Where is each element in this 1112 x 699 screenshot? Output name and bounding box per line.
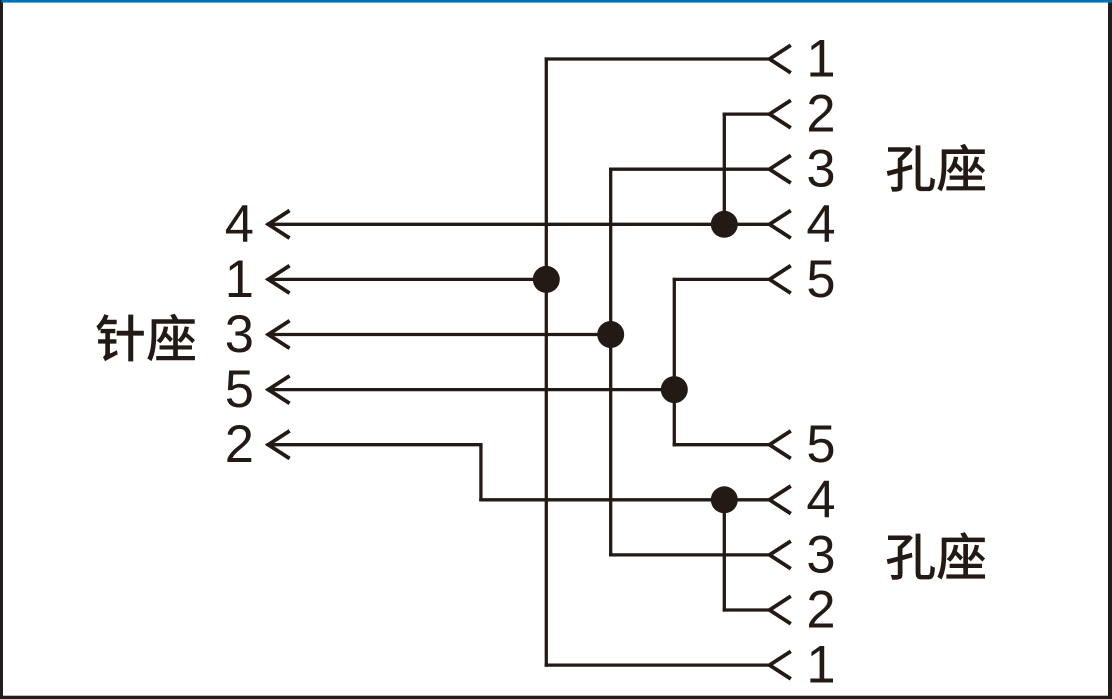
svg-text:4: 4 (806, 195, 835, 254)
wire: pin4 to hole-socket-4 top horizontal (268, 223, 769, 226)
svg-text:3: 3 (806, 140, 835, 199)
wire: hole-socket-1 top horizontal (546, 57, 769, 60)
svg-text:1: 1 (806, 30, 835, 89)
wire: hole-socket-5 bottom horizontal (674, 443, 769, 446)
wire: hole-socket-2 bottom horizontal (724, 608, 769, 611)
svg-text:2: 2 (806, 581, 835, 640)
svg-text:5: 5 (225, 360, 254, 419)
hole-socket(bottom) contact arrow pin 4 (770, 486, 791, 514)
wire: pin2 jog vertical x=481 (479, 445, 482, 500)
wire: hole-socket-4 bottom horizontal (481, 498, 770, 501)
wire: hole-socket-2 top horizontal (724, 112, 769, 115)
hole-socket(bottom) contact arrow pin 1 (770, 651, 791, 679)
wire: net3 vertical bus x=611 (hole3 top to hole3 bottom) (609, 169, 612, 555)
pin-socket contact arrow pin 2 (268, 431, 289, 459)
hole-socket(top) contact arrow pin 5 (770, 266, 791, 294)
hole-socket(bottom) contact arrow pin 3 (770, 541, 791, 569)
pin-socket contact arrow pin 1 (268, 266, 289, 294)
pin-socket contact arrow pin 5 (268, 376, 289, 404)
svg-text:1: 1 (806, 636, 835, 695)
svg-text:4: 4 (225, 195, 254, 254)
wire: hole-socket-5 top horizontal (674, 278, 769, 281)
hole-socket(top) contact arrow pin 3 (770, 155, 791, 183)
border frame left (0, 0, 3, 699)
top blue bar (2, 0, 1112, 3)
hole-socket(top) contact arrow pin 1 (770, 45, 791, 73)
svg-text:3: 3 (806, 525, 835, 584)
connector label 孔座 top (hole socket), char 座 (937, 144, 985, 192)
connector label 孔座 bottom (hole socket), char 座 (937, 532, 985, 580)
wire: pin2 horizontal (268, 443, 481, 446)
pin-socket contact arrow pin 3 (268, 321, 289, 349)
connector label 针座 (pin socket), char 座 (147, 314, 195, 362)
wire: net2-bottom vertical x=724 (hole4-bottom junction to hole2 bottom) (723, 500, 726, 610)
connector label 孔座 bottom (hole socket), char 孔 (887, 534, 935, 580)
wire: hole-socket-3 top horizontal (611, 168, 770, 171)
svg-text:3: 3 (225, 305, 254, 364)
svg-text:1: 1 (225, 250, 254, 309)
wire: net5 vertical bus x=674 (hole5 top to hole5 bottom) (673, 279, 676, 444)
hole-socket(bottom) contact arrow pin 2 (770, 596, 791, 624)
hole-socket(top) contact arrow pin 4 (770, 211, 791, 239)
junction dot net4/net2 top (711, 211, 738, 238)
junction dot net5 (661, 376, 688, 403)
connector label 针座 (pin socket), char 针 (96, 314, 143, 361)
border frame bottom (0, 696, 1112, 699)
svg-text:2: 2 (806, 85, 835, 144)
connector label 孔座 top (hole socket), char 孔 (887, 145, 935, 191)
svg-text:5: 5 (806, 250, 835, 309)
hole-socket(bottom) contact arrow pin 5 (770, 431, 791, 459)
svg-text:2: 2 (225, 415, 254, 474)
border frame right (1108, 2, 1112, 699)
wire: hole-socket-1 bottom horizontal (546, 663, 769, 666)
junction dot net2 bottom (711, 486, 738, 513)
svg-text:5: 5 (806, 415, 835, 474)
wire: net2-top vertical x=724 (hole2 top to hole4-top junction) (723, 114, 726, 224)
wire: pin5 horizontal to junction (268, 388, 674, 391)
wire: pin3 horizontal to junction (268, 333, 610, 336)
junction dot net1 (533, 266, 560, 293)
wire: net1 vertical bus x=546 (hole1 top to hole1 bottom) (545, 59, 548, 665)
hole-socket(top) contact arrow pin 2 (770, 100, 791, 128)
wire: hole-socket-3 bottom horizontal (611, 553, 770, 556)
wire: pin1 horizontal to junction (268, 278, 546, 281)
pin-socket contact arrow pin 4 (268, 211, 289, 239)
junction dot net3 (597, 321, 624, 348)
svg-text:4: 4 (806, 470, 835, 529)
